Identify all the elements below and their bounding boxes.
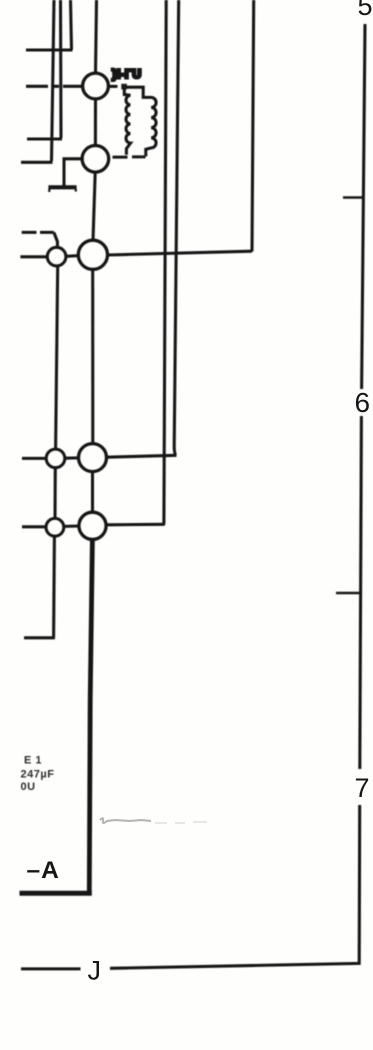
node B1 small connector circle <box>46 449 65 468</box>
svg-text:–A: –A <box>27 857 60 884</box>
wire vertical bus V_c (x~71, top) <box>71 0 72 50</box>
wire stub at y50 to V_c <box>26 48 73 51</box>
svg-text:0U: 0U <box>21 781 36 793</box>
svg-text:6: 6 <box>355 387 371 418</box>
wire vertical bus V_b (x~61, top) <box>59 0 63 138</box>
ground <box>48 185 76 189</box>
wire bottom-left segment of J net <box>21 967 81 970</box>
wire diagonal into node A1 <box>54 232 58 248</box>
wire P4 right run <box>107 455 177 457</box>
wire P5 right run <box>106 523 165 527</box>
connector circle P3 <box>78 240 107 269</box>
svg-text:E 1: E 1 <box>24 755 42 767</box>
wire main trunk top segment <box>96 0 97 74</box>
inductor L winding inner (left scalloped branch) <box>124 88 130 155</box>
value label capacitor E1 247uF 0U <box>21 755 55 794</box>
wire stub at y139 to V_b <box>27 137 62 140</box>
connector circle P2 <box>82 146 109 173</box>
wire top-right riser <box>252 0 254 252</box>
wire dash stub at y232 <box>22 231 54 234</box>
wire A1 to P3 <box>66 254 78 258</box>
wire stub at y162 to V_a <box>21 161 53 164</box>
wire B1 down to C1 <box>53 468 56 519</box>
node A1 small connector circle <box>47 247 66 266</box>
inductor L winding outer (right scalloped branch) <box>113 87 157 157</box>
svg-text:5: 5 <box>358 0 373 21</box>
wire vertical pair line 1 (to row2) <box>164 0 166 525</box>
wire trunk P2 to P3 <box>93 172 95 240</box>
wire vertical pair line 2 (to row1) <box>174 0 179 455</box>
connector circle P4 <box>79 444 107 472</box>
connector circle P5 <box>79 512 106 539</box>
wire vertical bus V_a (x~53, top) <box>52 0 55 161</box>
wire A1 down to B1 <box>56 266 58 449</box>
wire dash-dot stub at y86 to connector P1 <box>26 85 83 88</box>
tick mark on bracket at y197 <box>343 196 364 198</box>
wire C1 down leg <box>52 536 56 638</box>
junction dot coil top node <box>121 84 127 90</box>
wire trunk P4 to P5 <box>91 472 94 513</box>
wire stub at y638 <box>24 636 55 639</box>
note illegible smudge <box>100 818 207 823</box>
wire P3 right run to top-right riser <box>108 251 253 255</box>
wire stub left of A1 <box>20 255 47 258</box>
connector bracket right edge <box>362 24 365 389</box>
wire stub left of B1 <box>22 457 46 460</box>
tick mark on bracket at y593 <box>336 592 361 594</box>
wire B1 to P4 <box>65 456 79 459</box>
svg-text:}I-ΓU: }I-ΓU <box>112 67 141 81</box>
ground bar bottom (thick L with trunk) <box>20 891 92 896</box>
svg-text:J: J <box>88 956 102 986</box>
wire dashed lead P1 to coil <box>110 85 118 88</box>
wire trunk P1 to P2 <box>94 99 97 146</box>
node C1 small connector circle <box>46 518 64 536</box>
wire C1 to P5 <box>64 524 79 527</box>
wire P2 to ground lead <box>64 159 82 186</box>
wire stub left of C1 <box>22 525 46 528</box>
wire trunk P3 to P4 <box>91 270 94 444</box>
svg-text:247µF: 247µF <box>21 769 55 781</box>
wire trunk bottom segment (thick) <box>89 540 92 893</box>
svg-text:7: 7 <box>355 773 370 803</box>
connector circle P1 <box>83 73 109 99</box>
